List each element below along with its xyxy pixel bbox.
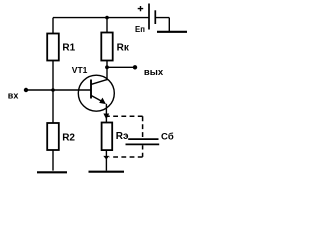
svg-text:вх: вх (8, 90, 19, 100)
svg-text:вых: вых (144, 67, 164, 78)
svg-text:VT1: VT1 (72, 65, 88, 75)
svg-text:Rк: Rк (117, 43, 130, 54)
svg-text:R2: R2 (62, 132, 75, 143)
svg-text:Cб: Cб (161, 132, 174, 143)
svg-text:Eп: Eп (135, 25, 145, 34)
svg-text:Rэ: Rэ (116, 131, 129, 142)
svg-text:R1: R1 (62, 43, 75, 54)
